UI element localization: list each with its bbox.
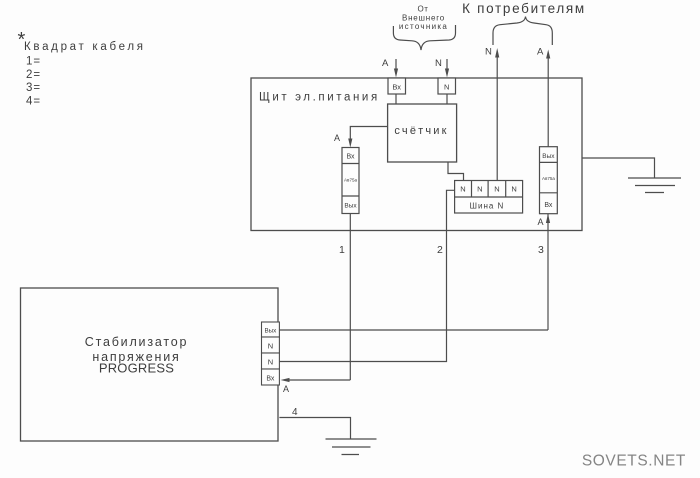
svg-text:3: 3 [538,244,544,256]
wire 4 stabilizer to ground [279,418,350,440]
svg-text:1: 1 [339,244,345,256]
ground (stabilizer) [326,439,377,455]
svg-text:4: 4 [292,407,298,418]
wire A to consumers [546,50,550,147]
svg-text:2: 2 [437,244,443,256]
panel box Щит эл.питания [251,78,582,231]
svg-text:4=: 4= [26,96,41,108]
stabilizer box [21,288,279,441]
svg-text:Вх: Вх [266,376,275,383]
wire terminal Вх to meter [395,94,397,104]
svg-text:Вх: Вх [392,83,401,92]
wire 3 stabilizer output to breaker QF2 [279,214,550,330]
svg-text:N: N [268,358,273,367]
svg-text:PROGRESS: PROGRESS [99,361,174,376]
svg-text:Ав75а: Ав75а [542,176,555,181]
svg-text:От: От [417,5,428,14]
stabilizer terminal N (lower) [262,353,280,369]
stabilizer terminal Вх [262,369,280,385]
svg-text:Вх: Вх [346,154,355,161]
svg-text:А: А [538,217,544,227]
stabilizer terminal Вых [262,322,280,337]
svg-text:К потребителям: К потребителям [462,1,586,16]
svg-text:1=: 1= [26,56,41,68]
breaker QF2 (right) [540,147,558,214]
breaker QF1 (left) [342,148,359,214]
svg-text:SOVETS.NET: SOVETS.NET [582,453,686,470]
svg-text:Вх: Вх [544,202,553,209]
wire meter to bus N [448,162,464,181]
wire terminal N to meter [446,94,448,104]
svg-text:A: A [334,133,340,143]
ground (panel) [628,178,681,193]
brace under "От Внешнего источника" [393,25,455,50]
terminal Вх (panel phase input) [388,78,406,94]
arrow A external input [394,59,398,78]
meter box счётчик [388,104,457,162]
svg-text:N: N [268,342,273,351]
svg-text:N: N [477,185,482,194]
wire N to consumers [495,48,499,181]
svg-text:Ав75а: Ав75а [344,178,357,183]
terminal N (panel neutral input) [438,78,456,94]
svg-text:N: N [485,47,492,58]
wire 2 bus N to stabilizer N [279,190,454,361]
wire panel to ground [582,158,655,178]
svg-text:Вых: Вых [344,203,357,210]
svg-text:Щит эл.питания: Щит эл.питания [259,92,380,104]
svg-text:Квадрат кабеля: Квадрат кабеля [24,41,146,53]
svg-text:N: N [511,185,516,194]
svg-text:N: N [494,185,499,194]
svg-text:N: N [460,185,465,194]
wire meter to breaker QF1 [348,127,387,148]
brace under "К потребителям" [493,17,552,46]
svg-text:N: N [444,83,449,92]
svg-text:Вых: Вых [542,153,555,160]
svg-text:A: A [382,58,389,69]
svg-text:источника: источника [399,22,448,31]
stabilizer terminal N (upper) [262,337,280,353]
svg-text:A: A [283,384,289,394]
svg-text:3=: 3= [26,82,41,94]
svg-text:N: N [435,58,442,69]
label "От Внешнего источника" [399,5,448,32]
wire 1 breaker QF1 to stabilizer input [281,214,351,383]
svg-text:Стабилизатор: Стабилизатор [85,335,188,349]
bus box Шина N [455,181,523,214]
svg-text:2=: 2= [26,69,41,81]
svg-text:счётчик: счётчик [394,125,448,137]
svg-text:Шина N: Шина N [470,202,505,211]
svg-text:Вых: Вых [264,328,277,335]
arrow N external input [445,59,449,78]
svg-text:A: A [537,47,544,58]
